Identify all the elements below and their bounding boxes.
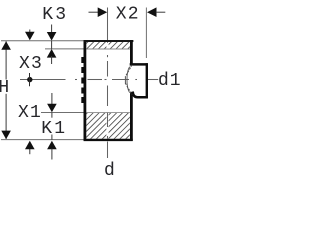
svg-text:X3: X3 — [19, 54, 43, 74]
fitting outline, right wall above branch — [130, 40, 133, 63]
fitting outline, bottom face — [84, 139, 133, 141]
extension line A (top face) — [1, 40, 86, 42]
dimension H with arrowheads and label — [0, 41, 11, 139]
svg-text:X1: X1 — [18, 103, 42, 123]
extension line C (bottom socket shoulder) — [41, 112, 86, 114]
branch outline, top wall — [130, 63, 148, 66]
branch root chamfer, lower — [125, 83, 132, 95]
dimension K1 with arrowheads and label — [41, 93, 67, 160]
branch outline, end face — [146, 63, 148, 98]
fitting outline, top face — [84, 40, 134, 42]
extension line B (top socket shoulder) — [45, 48, 86, 50]
svg-text:X2: X2 — [116, 5, 140, 25]
svg-text:K1: K1 — [41, 119, 67, 139]
extension line D (bottom face) — [1, 139, 85, 141]
hatched wall section, bottom socket — [86, 113, 130, 139]
dimension X3 arrowhead and label — [19, 30, 43, 75]
svg-text:d1: d1 — [158, 71, 180, 91]
centerline, branch axis d1 — [20, 79, 158, 81]
branch outline, bottom wall with fillet — [133, 92, 148, 98]
interior shoulder line, bottom socket — [86, 112, 130, 114]
branch root chamfer, upper — [125, 65, 132, 77]
dimension X2 with arrowheads and label — [89, 5, 166, 25]
interior shoulder line, top socket — [86, 48, 130, 50]
centerline, vertical pipe axis d — [106, 44, 108, 49]
fitting outline, left wall — [84, 40, 87, 141]
dimension X1 arrowhead and label — [18, 103, 42, 154]
hatched wall section, top socket — [86, 42, 130, 49]
svg-text:H: H — [0, 78, 9, 98]
svg-text:d: d — [104, 161, 115, 180]
branch bore arc — [127, 67, 130, 93]
svg-text:K3: K3 — [42, 5, 68, 25]
fitting outline, right wall below branch — [130, 92, 133, 141]
dimension K3 with arrowheads and label — [42, 5, 68, 64]
branch root bore edge — [124, 76, 126, 83]
extension line, branch end (X2) — [145, 8, 147, 59]
fitting ribs on left wall — [81, 57, 84, 103]
reference point marker on branch axis — [27, 73, 32, 86]
